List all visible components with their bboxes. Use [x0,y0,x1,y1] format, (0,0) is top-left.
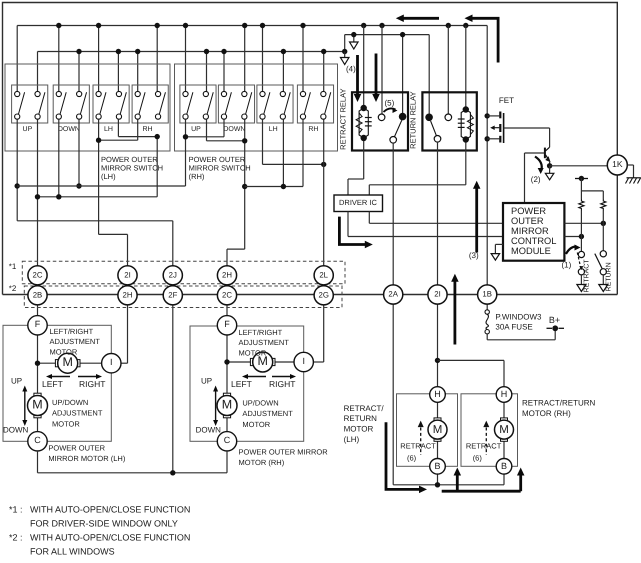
svg-text:RETRACT/: RETRACT/ [344,404,385,413]
svg-text:2F: 2F [168,291,177,300]
svg-text:H: H [501,389,508,399]
svg-text:2H: 2H [222,271,232,280]
svg-text:UP/DOWN: UP/DOWN [52,398,88,407]
svg-text:2L: 2L [319,271,328,280]
svg-text:2I: 2I [434,290,441,299]
svg-text:FET: FET [499,96,514,105]
svg-text:ADJUSTMENT: ADJUSTMENT [52,409,103,418]
svg-text:(4): (4) [346,65,356,74]
svg-text:*2: *2 [9,284,17,293]
svg-text:RH: RH [308,126,318,133]
svg-text:POWER OUTER MIRROR: POWER OUTER MIRROR [239,448,329,457]
svg-text:2C: 2C [222,291,232,300]
svg-text:(LH): (LH) [101,172,116,181]
svg-text:M: M [222,397,232,411]
svg-text:1K: 1K [612,159,623,169]
svg-text:OUTER: OUTER [511,216,544,226]
svg-text:M: M [433,424,443,436]
svg-text:MOTOR: MOTOR [50,348,78,357]
svg-text:DOWN: DOWN [58,126,80,133]
svg-text:MOTOR: MOTOR [242,420,270,429]
svg-text:RETURN RELAY: RETURN RELAY [409,91,418,148]
svg-text:MODULE: MODULE [511,246,551,256]
svg-text:30A FUSE: 30A FUSE [495,322,532,331]
svg-text:POWER OUTER: POWER OUTER [48,443,105,452]
svg-text:UP/DOWN: UP/DOWN [242,398,278,407]
svg-text:MOTOR: MOTOR [344,425,374,434]
svg-text:RETRACT: RETRACT [466,442,502,451]
svg-text:I: I [110,357,113,367]
svg-text:ADJUSTMENT: ADJUSTMENT [50,337,101,346]
svg-text:LEFT: LEFT [42,379,63,389]
svg-text:DRIVER IC: DRIVER IC [339,198,378,207]
svg-text:2G: 2G [318,291,328,300]
svg-text:POWER: POWER [511,206,546,216]
svg-text:RETRACT: RETRACT [400,442,436,451]
svg-text:M: M [32,397,42,411]
svg-text:RETRACT: RETRACT [584,259,591,293]
svg-text:(RH): (RH) [189,172,205,181]
svg-text:C: C [34,435,41,445]
svg-text:UP: UP [191,126,201,133]
svg-text:2J: 2J [169,271,177,280]
svg-text:(1): (1) [562,261,572,270]
svg-text:M: M [499,424,509,436]
svg-text:(LH): (LH) [344,435,360,444]
svg-text:2H: 2H [123,291,133,300]
svg-text:(6): (6) [473,454,483,463]
svg-text:*2 :: *2 : [9,533,23,543]
svg-text:LEFT/RIGHT: LEFT/RIGHT [239,328,283,337]
svg-text:B: B [434,461,440,471]
svg-text:B+: B+ [549,315,560,325]
svg-text:MIRROR MOTOR (LH): MIRROR MOTOR (LH) [48,454,125,463]
svg-text:FOR DRIVER-SIDE WINDOW ONLY: FOR DRIVER-SIDE WINDOW ONLY [30,519,178,529]
svg-text:2I: 2I [124,271,131,280]
svg-text:LH: LH [269,126,278,133]
svg-text:*1: *1 [9,262,17,271]
svg-text:UP: UP [201,377,212,386]
svg-text:(6): (6) [407,454,417,463]
svg-text:RETRACT RELAY: RETRACT RELAY [339,88,348,149]
svg-text:LEFT/RIGHT: LEFT/RIGHT [50,327,94,336]
svg-text:LEFT: LEFT [231,379,252,389]
svg-text:WITH AUTO-OPEN/CLOSE FUNCTION: WITH AUTO-OPEN/CLOSE FUNCTION [30,505,190,515]
svg-text:UP: UP [11,377,22,386]
svg-text:LH: LH [104,126,113,133]
svg-text:RIGHT: RIGHT [79,379,105,389]
svg-text:RETRACT/RETURN: RETRACT/RETURN [522,398,596,407]
svg-text:DOWN: DOWN [3,426,29,435]
svg-text:H: H [434,389,441,399]
svg-text:(2): (2) [531,175,541,184]
svg-text:F: F [35,319,41,329]
svg-text:M: M [62,355,72,369]
svg-text:ADJUSTMENT: ADJUSTMENT [239,338,290,347]
svg-text:FOR ALL WINDOWS: FOR ALL WINDOWS [30,547,115,557]
svg-text:C: C [224,435,231,445]
svg-text:POWER OUTER: POWER OUTER [101,155,158,164]
svg-text:RH: RH [142,126,152,133]
svg-text:UP: UP [23,126,33,133]
svg-text:RETURN: RETURN [344,414,378,423]
svg-text:MOTOR: MOTOR [52,420,80,429]
svg-text:B: B [501,461,507,471]
svg-text:(5): (5) [385,99,395,108]
svg-text:ADJUSTMENT: ADJUSTMENT [242,409,293,418]
svg-text:2A: 2A [388,290,398,299]
svg-text:1B: 1B [482,290,492,299]
svg-text:DOWN: DOWN [223,126,245,133]
svg-text:WITH AUTO-OPEN/CLOSE FUNCTION: WITH AUTO-OPEN/CLOSE FUNCTION [30,533,190,543]
svg-text:MIRROR SWITCH: MIRROR SWITCH [189,164,251,173]
svg-text:RETURN: RETURN [606,262,613,291]
svg-text:*1 :: *1 : [9,505,23,515]
svg-text:(3): (3) [469,251,479,260]
svg-text:CONTROL: CONTROL [511,236,556,246]
svg-text:F: F [224,319,230,329]
svg-text:P.WINDOW3: P.WINDOW3 [495,313,542,322]
svg-text:MIRROR SWITCH: MIRROR SWITCH [101,164,163,173]
svg-text:I: I [302,356,305,366]
svg-text:MOTOR (RH): MOTOR (RH) [522,409,571,418]
svg-text:MOTOR (RH): MOTOR (RH) [239,458,285,467]
svg-text:2B: 2B [33,291,43,300]
svg-text:POWER OUTER: POWER OUTER [189,155,246,164]
svg-text:DOWN: DOWN [196,426,222,435]
svg-text:2C: 2C [33,271,43,280]
svg-text:MOTOR: MOTOR [239,349,267,358]
svg-text:MIRROR: MIRROR [511,226,549,236]
svg-text:RIGHT: RIGHT [269,379,295,389]
